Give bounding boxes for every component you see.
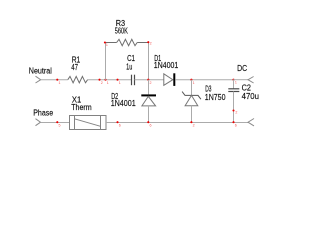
svg-text:1: 1 [193, 81, 195, 85]
wire Phase to X1 [41, 122, 70, 124]
diode D2 cathode bar [141, 94, 156, 96]
port Neutral connector [36, 76, 41, 83]
wire R1 to C1 [88, 79, 132, 81]
svg-text:2: 2 [150, 42, 152, 46]
svg-text:1u: 1u [126, 62, 132, 71]
svg-text:6: 6 [235, 124, 237, 128]
svg-text:2: 2 [101, 81, 103, 85]
diode D1 triangle [164, 74, 173, 86]
junction node dot (Neutral/R1 pin 1) [56, 79, 58, 81]
junction node dot (D2 branch) [147, 79, 149, 81]
node dot R3 pin 1 [104, 41, 106, 43]
wire down to D2 [148, 80, 150, 95]
pin dot C2 pin 2 [232, 109, 234, 111]
svg-text:2: 2 [150, 81, 152, 85]
svg-text:47: 47 [71, 63, 78, 72]
svg-text:560K: 560K [115, 27, 128, 36]
junction node dot (C2 bottom) [232, 121, 234, 123]
svg-text:2: 2 [235, 111, 237, 115]
svg-text:Neutral: Neutral [29, 67, 52, 76]
capacitor C1 [132, 75, 135, 86]
svg-text:1N4001: 1N4001 [111, 99, 136, 108]
svg-text:1: 1 [119, 81, 121, 85]
pin dot X1 pin 2 [116, 121, 118, 123]
svg-text:5: 5 [59, 124, 61, 128]
wire X1 to output port (bottom rail) [106, 122, 248, 124]
svg-text:1N4001: 1N4001 [154, 61, 179, 70]
svg-text:DC: DC [237, 64, 247, 73]
svg-text:1N750: 1N750 [205, 93, 226, 102]
svg-text:2: 2 [193, 124, 195, 128]
capacitor C2 [228, 89, 239, 92]
junction node dot (R3 branch) [104, 79, 106, 81]
svg-text:470u: 470u [242, 92, 259, 101]
pin dot C1 pin 1 [116, 79, 118, 81]
bottom-right output connector [248, 119, 254, 126]
svg-text:1: 1 [235, 81, 237, 85]
wire C2 to bottom rail [233, 92, 235, 123]
svg-text:6: 6 [150, 124, 152, 128]
svg-text:6: 6 [119, 124, 121, 128]
svg-text:D3: D3 [205, 85, 212, 94]
svg-text:1: 1 [106, 43, 108, 47]
wire to DC port [234, 79, 249, 81]
port Phase connector [36, 119, 41, 126]
pin dot R1 pin 2 [98, 79, 100, 81]
junction node dot (D3 bottom) [190, 121, 192, 123]
wire Neutral to R1 [41, 79, 68, 81]
wire up to R3 left [105, 43, 107, 80]
wire down to C2 [233, 80, 235, 89]
junction node dot (C2 branch top) [232, 79, 234, 81]
junction node dot (D3 branch) [190, 79, 192, 81]
wire D2 to bottom rail [148, 106, 150, 123]
wire down to D3 [191, 80, 193, 96]
node dot R3 pin 2 [147, 41, 149, 43]
thermistor X1 [70, 116, 107, 130]
wire C1 to D1 [135, 79, 164, 81]
svg-text:Phase: Phase [33, 109, 53, 118]
junction node dot (Phase/X1 pin 1) [56, 121, 58, 123]
zener D3 triangle [185, 95, 198, 105]
junction node dot (D2 bottom) [147, 121, 149, 123]
wire D1 to C2 [175, 79, 233, 81]
resistor R3 [106, 39, 149, 45]
svg-text:1: 1 [107, 81, 109, 85]
diode D2 triangle [142, 96, 156, 106]
port DC connector [248, 77, 254, 84]
diode D1 cathode bar [173, 73, 175, 86]
svg-text:Therm: Therm [71, 103, 92, 112]
wire up to R3 right [148, 43, 150, 80]
resistor R1 [68, 76, 88, 82]
zener D3 cathode bar [182, 92, 201, 100]
svg-text:1: 1 [59, 81, 61, 85]
wire D3 to bottom rail [191, 106, 193, 123]
